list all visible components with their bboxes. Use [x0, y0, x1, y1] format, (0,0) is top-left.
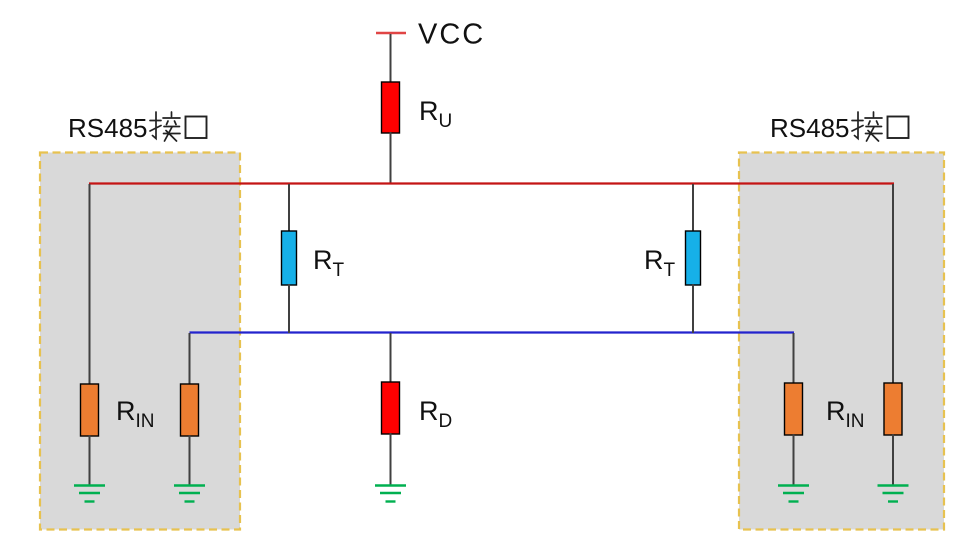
- svg-text:T: T: [664, 260, 676, 281]
- resistor RIN right outer: [884, 383, 902, 435]
- svg-text:IN: IN: [846, 411, 865, 432]
- wire RIN left outer to ground: [89, 435, 91, 486]
- wire blue bus to right inner RIN: [793, 333, 795, 384]
- red bus wire A: [89, 182, 894, 184]
- svg-text:IN: IN: [136, 411, 155, 432]
- label RIN (left): [116, 396, 155, 432]
- ground (right inner): [778, 486, 809, 502]
- label VCC: [418, 19, 485, 51]
- wire RU to red bus: [390, 132, 392, 184]
- blue bus wire B: [190, 331, 795, 333]
- svg-text:R: R: [419, 396, 439, 426]
- wire red bus to right RT: [692, 184, 694, 232]
- label RIN (right): [826, 396, 865, 432]
- wire right RT to blue bus: [692, 284, 694, 333]
- resistor RU: [382, 82, 400, 133]
- svg-text:R: R: [116, 396, 136, 426]
- wire RIN left inner to ground: [189, 435, 191, 486]
- label RD: [419, 396, 452, 432]
- label RT (right): [644, 245, 676, 281]
- wire blue bus to left inner RIN: [189, 333, 191, 385]
- wire blue bus to RD: [390, 333, 392, 383]
- wire RIN right inner to ground: [793, 434, 795, 486]
- label 接口 (right, CJK glyph strokes): [852, 112, 909, 141]
- label 接口 (left, CJK glyph strokes): [150, 112, 207, 141]
- resistor RT right: [686, 231, 701, 285]
- svg-text:R: R: [826, 396, 846, 426]
- right RS485 interface box: [739, 153, 944, 530]
- svg-text:R: R: [644, 245, 664, 275]
- label RS485接口 (left, latin part): [68, 113, 148, 143]
- wire red bus to left RT: [288, 184, 290, 232]
- ground (left inner): [174, 486, 205, 502]
- svg-text:R: R: [419, 96, 439, 126]
- resistor RD: [382, 382, 400, 434]
- resistor RIN left inner: [181, 384, 199, 436]
- svg-text:T: T: [333, 260, 345, 281]
- svg-text:R: R: [313, 245, 333, 275]
- ground (left outer): [74, 486, 105, 502]
- svg-text:RS485: RS485: [68, 113, 148, 143]
- wire RD to ground: [390, 433, 392, 486]
- left RS485 interface box: [40, 153, 240, 530]
- wire red bus to left outer RIN: [89, 184, 91, 385]
- wire red bus to right outer RIN: [892, 184, 894, 384]
- label RS485接口 (right, latin part): [770, 113, 850, 143]
- wire left RT to blue bus: [288, 284, 290, 333]
- label RU: [419, 96, 452, 132]
- resistor RT left: [282, 231, 297, 285]
- wire VCC to RU: [390, 34, 392, 83]
- svg-text:D: D: [439, 411, 453, 432]
- VCC tick: [376, 32, 406, 34]
- ground (right outer): [878, 486, 909, 502]
- resistor RIN left outer: [81, 384, 99, 436]
- svg-text:U: U: [439, 111, 453, 132]
- label RT (left): [313, 245, 345, 281]
- resistor RIN right inner: [785, 383, 803, 435]
- svg-text:RS485: RS485: [770, 113, 850, 143]
- svg-text:VCC: VCC: [418, 19, 485, 51]
- ground (center): [375, 486, 406, 502]
- wire RIN right outer to ground: [892, 434, 894, 486]
